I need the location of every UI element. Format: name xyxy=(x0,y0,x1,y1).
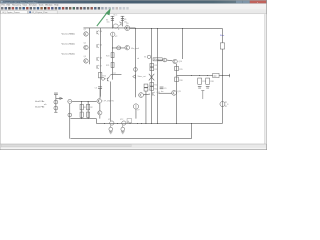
wire diag xyxy=(108,74,111,78)
transistor Q14 LTP xyxy=(97,99,102,104)
svg-text:Q9: Q9 xyxy=(126,23,128,25)
svg-text:Q13: Q13 xyxy=(177,91,180,93)
tab bar xyxy=(0,10,266,14)
wire xyxy=(99,89,101,99)
node VCC tick right xyxy=(121,15,125,17)
wire top xyxy=(83,27,135,29)
transistor Q17 xyxy=(106,78,108,81)
wire xyxy=(81,101,83,118)
horizontal scrollbar thumb xyxy=(1,145,131,147)
wire xyxy=(176,64,178,124)
svg-text:R11: R11 xyxy=(154,65,157,67)
wire tick xyxy=(54,111,57,113)
svg-text:R14: R14 xyxy=(154,89,157,91)
capacitor C9 xyxy=(160,86,164,88)
svg-text:R2: R2 xyxy=(90,107,92,109)
tab bar bottom edge xyxy=(0,13,266,15)
transistor Q1 xyxy=(84,32,88,36)
wire xyxy=(110,125,112,127)
resistor R15 xyxy=(175,66,179,70)
net box xyxy=(127,119,132,123)
svg-text:Q3: Q3 xyxy=(83,56,85,58)
capacitor C2 xyxy=(121,17,124,19)
svg-text:8: 8 xyxy=(227,104,228,106)
capacitor C6 xyxy=(206,85,210,87)
voltage source V2 xyxy=(111,32,115,36)
wire bottom return xyxy=(70,138,191,140)
transistor Q3 xyxy=(84,59,88,63)
wire xyxy=(135,109,137,119)
svg-text:V11: V11 xyxy=(108,119,111,121)
wire stub xyxy=(56,97,63,99)
svg-text:V7: V7 xyxy=(137,109,139,111)
wire xyxy=(121,16,123,26)
voltage source V15 xyxy=(134,68,138,72)
junction xyxy=(80,100,83,103)
resistor R19 xyxy=(220,43,224,49)
resistor R12 xyxy=(150,67,154,70)
current source I1 xyxy=(113,24,118,28)
resistor R14 xyxy=(150,87,154,91)
svg-text:vas: vas xyxy=(113,72,116,74)
resistor R13 xyxy=(150,82,154,86)
tab 1 active xyxy=(1,11,28,14)
wire xyxy=(190,123,192,138)
menu bar xyxy=(0,4,266,7)
resistor R11 xyxy=(150,63,154,66)
toolbar xyxy=(0,7,266,11)
wire xyxy=(55,95,57,113)
svg-text:vb: vb xyxy=(137,58,139,60)
tab 2 icon xyxy=(29,11,31,13)
resistor R17 xyxy=(198,78,202,84)
transistor Q5 xyxy=(96,44,98,47)
wire xyxy=(111,36,113,79)
transistor Q16 xyxy=(125,45,130,50)
wire xyxy=(110,81,112,121)
transistor Q12 xyxy=(152,92,154,95)
sense source V12 xyxy=(122,121,126,125)
capacitor C8 xyxy=(144,88,148,91)
svg-text:Q5: Q5 xyxy=(100,44,102,46)
ground xyxy=(109,131,113,133)
voltage source V9 xyxy=(54,100,58,104)
toolbar lower edge xyxy=(0,9,266,11)
voltage source V8 xyxy=(68,113,72,117)
transistor Q10 xyxy=(173,59,177,63)
behavioral source B1 xyxy=(153,58,162,61)
svg-text:R10: R10 xyxy=(103,76,106,78)
source V14 xyxy=(121,127,125,131)
svg-text:C3: C3 xyxy=(95,87,97,89)
wire xyxy=(157,59,162,61)
capacitor C10 xyxy=(98,86,102,88)
svg-text:02_LTspice_Power: 02_LTspice_Power xyxy=(2,11,20,14)
wire xyxy=(181,28,183,59)
svg-text:R13: R13 xyxy=(154,84,157,86)
source V13 xyxy=(109,127,113,131)
wire xyxy=(111,73,122,75)
wire mid rail xyxy=(99,28,101,97)
tab 2 xyxy=(28,11,57,14)
diode D2 xyxy=(133,75,136,79)
app icon xyxy=(1,1,3,3)
svg-text:Vbias_set: Vbias_set xyxy=(137,75,146,78)
diode D3 xyxy=(60,97,62,100)
transistor Q15 xyxy=(98,111,102,115)
sense source V11 xyxy=(110,121,114,125)
status bar edge xyxy=(0,146,266,148)
canvas xyxy=(1,14,265,144)
svg-text:ib: ib xyxy=(128,121,129,123)
wire xyxy=(145,91,147,123)
svg-text:Q7: Q7 xyxy=(100,65,102,67)
svg-text:Vout1_CH(2Ω): Vout1_CH(2Ω) xyxy=(61,53,74,56)
wire xyxy=(221,28,223,42)
node VCC tick left xyxy=(111,15,115,17)
wire xyxy=(72,100,96,102)
junction xyxy=(134,27,137,30)
title bar xyxy=(0,0,266,3)
ground xyxy=(121,131,125,133)
capacitor C11 xyxy=(54,92,58,94)
svg-text:V4: V4 xyxy=(144,57,146,59)
svg-text:R17: R17 xyxy=(202,81,205,83)
junction xyxy=(190,74,193,77)
svg-text:C9: C9 xyxy=(164,88,166,90)
svg-text:Vout1_CH(4Ω): Vout1_CH(4Ω) xyxy=(61,42,74,45)
wire bus upper xyxy=(70,118,96,120)
voltage source V3b xyxy=(117,46,121,50)
minimize button xyxy=(236,1,243,3)
horizontal scrollbar xyxy=(0,144,266,147)
annotation arrow xyxy=(97,13,107,26)
wire xyxy=(87,101,89,118)
svg-text:File Edit Hierarchy View: File Edit Hierarchy View Simulate Tools … xyxy=(2,4,60,7)
transistor Q8 xyxy=(120,22,122,25)
transistor Q11 xyxy=(139,93,144,98)
svg-text:drv: drv xyxy=(161,91,164,93)
svg-text:V2: V2 xyxy=(115,36,117,38)
crossover wires xyxy=(149,74,154,81)
wire xyxy=(150,28,152,123)
wire xyxy=(99,115,101,119)
wire left rail xyxy=(88,28,90,64)
svg-text:a b: a b xyxy=(44,104,47,106)
svg-text:LTspice IV - [02_LTspice_Power: LTspice IV - [02_LTspice_PowerAmp] xyxy=(3,1,38,4)
junction xyxy=(103,122,106,125)
resistor R21 xyxy=(111,62,114,67)
wire xyxy=(134,44,136,98)
capacitor C1 xyxy=(111,17,114,19)
voltage source V10 xyxy=(54,106,58,110)
svg-text:R16: R16 xyxy=(179,80,182,82)
svg-text:C8: C8 xyxy=(148,90,150,92)
svg-text:Vout1 FBa: Vout1 FBa xyxy=(35,100,45,103)
junction xyxy=(111,27,114,30)
wire xyxy=(122,125,124,127)
svg-text:V6: V6 xyxy=(124,19,126,21)
transistor Q2 xyxy=(84,45,88,49)
wire xyxy=(158,92,171,94)
transistor Q7 xyxy=(96,65,98,68)
close button xyxy=(250,1,266,4)
wire xyxy=(221,49,223,123)
svg-text:R12: R12 xyxy=(154,69,157,71)
vertical scrollbar xyxy=(264,14,266,144)
transistor Q9 xyxy=(125,26,130,31)
capacitor C7 xyxy=(144,84,148,87)
resistor R10 xyxy=(98,72,101,77)
svg-text:LTP_2SA970: LTP_2SA970 xyxy=(103,100,114,103)
supply rail xyxy=(130,27,223,29)
svg-text:V12: V12 xyxy=(120,119,123,121)
transistor Q4 xyxy=(96,31,98,34)
wire xyxy=(143,93,150,96)
svg-text:R21: R21 xyxy=(106,65,109,67)
out flag xyxy=(229,74,231,77)
vertical scrollbar edge xyxy=(263,14,265,144)
status bar xyxy=(0,147,266,149)
svg-text:I1: I1 xyxy=(118,29,120,31)
maximize button xyxy=(243,1,250,3)
resistor R3 xyxy=(80,112,83,117)
out net label box xyxy=(213,73,219,77)
horizontal scrollbar edge xyxy=(0,143,266,145)
window frame xyxy=(0,0,267,150)
resistor R18 xyxy=(206,78,210,84)
voltage source V4 xyxy=(147,55,150,58)
wire xyxy=(167,59,173,62)
svg-text:R15: R15 xyxy=(179,69,182,71)
voltage source V7 xyxy=(133,104,138,109)
svg-text:C7: C7 xyxy=(148,86,150,88)
resistor R2 xyxy=(87,104,90,110)
svg-text:out: out xyxy=(214,75,217,78)
svg-text:Q6: Q6 xyxy=(100,57,102,59)
svg-text:R20: R20 xyxy=(106,55,109,57)
voltage source V1 xyxy=(68,99,72,103)
svg-text:Q1: Q1 xyxy=(83,29,85,31)
load speaker xyxy=(220,102,225,107)
wire xyxy=(156,28,158,123)
svg-text:Q4: Q4 xyxy=(100,31,102,33)
svg-text:10u: 10u xyxy=(106,22,109,24)
svg-text:Q2: Q2 xyxy=(83,43,85,45)
probe marks xyxy=(202,91,204,99)
svg-text:R18: R18 xyxy=(210,81,213,83)
wire out xyxy=(177,75,230,77)
svg-text:R1: R1 xyxy=(84,107,86,109)
wire xyxy=(111,16,113,28)
toolbar icons xyxy=(1,7,3,10)
transistor Q13 xyxy=(172,90,177,95)
wire vas xyxy=(112,47,125,49)
bus wire xyxy=(96,122,222,124)
resistor R16 xyxy=(175,77,179,82)
current source I2 xyxy=(163,58,167,62)
transistor Q6 xyxy=(96,57,98,60)
svg-text:Vout1_CH(8Ω): Vout1_CH(8Ω) xyxy=(61,32,74,35)
wire xyxy=(99,104,101,111)
wire xyxy=(134,28,136,43)
resistor R1 xyxy=(80,104,83,110)
resistor R20 xyxy=(111,53,114,58)
resistor R4 xyxy=(87,112,90,117)
wire xyxy=(95,119,97,124)
capacitor C5 xyxy=(198,85,202,87)
wire xyxy=(69,104,71,139)
svg-text:Q10: Q10 xyxy=(179,61,182,63)
